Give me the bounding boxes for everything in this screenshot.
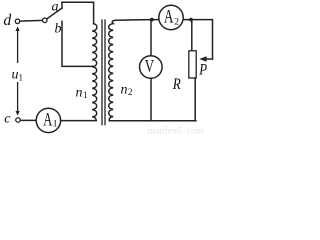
label P [198,61,207,79]
slider arrowhead P [199,56,206,62]
wire a to primary top [62,2,94,24]
svg-text:2: 2 [174,17,179,27]
transformer core [101,20,103,125]
wire R bottom to bottom bus [109,78,195,121]
svg-text:1: 1 [53,120,58,130]
primary coil n1 [92,24,97,121]
wire A1 to terminal c [20,119,36,121]
wire V bottom [150,78,152,121]
svg-text:u: u [12,68,19,83]
junction node at V branch [150,18,154,22]
switch blade to a [47,8,62,19]
wire junction2 down to resistor R top [191,20,193,51]
secondary coil n2 [109,20,117,121]
label V in voltmeter [145,57,154,76]
u1 voltage arrow down head [16,111,20,116]
svg-text:A: A [164,5,174,27]
resistor R body [189,51,196,78]
svg-text:1: 1 [83,90,88,100]
junction node at R branch [189,18,193,22]
svg-text:a: a [52,0,59,15]
wire d to switch pivot [20,19,43,22]
u1 arrow upper shaft [17,30,19,63]
svg-text:d: d [3,12,11,29]
svg-text:P: P [198,61,207,79]
label A2 in ammeter [164,5,174,27]
svg-text:A: A [43,110,52,130]
svg-text:2: 2 [128,87,133,97]
svg-text:b: b [55,22,62,37]
slider arrow tail [205,58,213,60]
svg-text:V: V [145,57,154,76]
wire A2 to top-right corner, down to slider arrow [183,20,212,59]
u1 arrow lower shaft [17,82,19,112]
svg-text:n: n [76,86,83,101]
terminal d [15,19,20,24]
terminal c [16,118,21,123]
ammeter A1 circle [36,108,60,132]
svg-text:manfen5. com: manfen5. com [148,125,204,135]
voltmeter V circle [140,56,163,79]
contact b wire to primary tap [62,21,93,66]
wire secondary top to A2 [116,19,159,22]
wire junction1 down to voltmeter V [150,20,152,56]
svg-text:R: R [172,76,181,93]
label A1 in ammeter [43,110,52,130]
label R [172,76,181,93]
contact a stub [61,2,63,8]
u1 voltage arrow up head [16,26,20,31]
wire primary bottom to A1 [61,120,96,122]
svg-text:n: n [121,83,128,98]
ammeter A2 circle [159,5,183,29]
svg-text:1: 1 [19,73,24,83]
svg-text:c: c [4,111,11,126]
switch pivot circle [43,18,48,23]
